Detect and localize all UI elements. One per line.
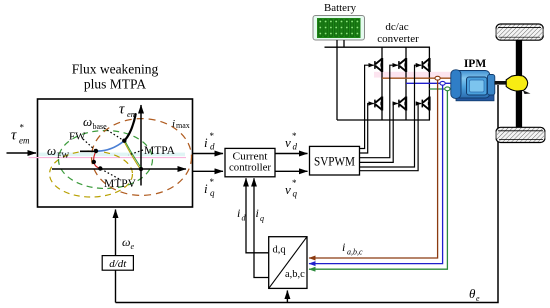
MTPA lower curve (olive-green, dot2 to origin)	[124, 141, 140, 169]
svg-text:τ: τ	[11, 128, 17, 144]
voltage ellipse (green, base speed)	[59, 131, 153, 189]
wire: v*_d to SVPWM	[275, 153, 308, 155]
cyan constant-torque band	[39, 153, 185, 157]
transistor Q5 (top leg 3)	[422, 58, 430, 72]
theta_e position feedback wire	[116, 85, 499, 303]
magenta constant-torque line	[29, 157, 187, 159]
svg-text:FW: FW	[69, 131, 86, 143]
phase line a (brown)	[382, 77, 452, 79]
svg-text:a,b,c: a,b,c	[347, 248, 363, 257]
svg-text:i: i	[172, 118, 175, 130]
axle (vertical drive shaft)	[516, 39, 522, 129]
flux-weakening block U1	[38, 99, 193, 207]
svg-text:converter: converter	[377, 33, 419, 45]
transistor Q6 (bottom leg 3)	[422, 97, 430, 111]
svg-text:i: i	[256, 206, 259, 220]
wire: gate drive to bottom IGBT leg 1	[360, 104, 374, 154]
node: axis point dot4	[98, 166, 102, 170]
svg-text:v: v	[285, 182, 291, 197]
svg-text:*: *	[210, 177, 215, 187]
node: origin dot	[139, 167, 143, 171]
wire: i_q feedback to controller	[254, 178, 269, 277]
wire: gate drive to bottom IGBT leg 2	[360, 104, 398, 163]
svg-text:d/dt: d/dt	[109, 258, 127, 270]
dq to abc transform block	[269, 237, 307, 289]
shaft from motor to differential	[495, 81, 508, 85]
svg-text:ω: ω	[122, 235, 130, 249]
voltage ellipse (olive, low speed)	[50, 151, 133, 197]
svg-text:d: d	[210, 142, 215, 152]
wire: phase c measurement drop	[309, 91, 447, 270]
svg-text:*: *	[292, 178, 297, 188]
FW entry segment (black)	[80, 150, 97, 152]
svg-text:q: q	[260, 214, 264, 223]
MTPV trajectory (red)	[94, 151, 101, 169]
transistor Q1 (top leg 1)	[375, 58, 383, 72]
svg-text:v: v	[285, 135, 291, 150]
phase line b (blue)	[406, 82, 452, 84]
svg-text:max: max	[176, 121, 190, 130]
svg-text:base: base	[93, 122, 108, 131]
svg-text:Flux weakening: Flux weakening	[72, 62, 159, 77]
svg-text:e: e	[131, 242, 135, 251]
transistor Q3 (top leg 2)	[399, 58, 407, 72]
svg-text:θ: θ	[469, 286, 476, 301]
transistor Q4 (bottom leg 2)	[399, 97, 407, 111]
phase line c (green)	[429, 88, 452, 90]
current sensor c	[445, 87, 450, 91]
wire: battery positive to top dc bus	[343, 40, 345, 47]
plot horizontal axis	[52, 168, 186, 170]
current controller block	[225, 148, 275, 176]
wire: top dc bus	[325, 46, 431, 48]
wheel (bottom)	[495, 127, 545, 142]
current limit ellipse i_max (brown)	[92, 119, 192, 196]
wire: i*_d reference to current controller	[193, 153, 224, 155]
svg-text:*: *	[20, 123, 25, 133]
wire: torque reference input arrow	[7, 152, 37, 154]
svg-text:controller: controller	[229, 162, 271, 174]
dotted pointer MTPV	[101, 169, 121, 180]
wire: i*_q reference to current controller	[193, 170, 224, 172]
node: MTPV point dot3	[92, 160, 96, 164]
dotted pointer MTPA	[129, 150, 144, 155]
wire: phase a measurement drop	[309, 80, 438, 258]
svg-text:q: q	[210, 188, 215, 198]
battery pack	[313, 16, 365, 41]
wire: gate drive to bottom IGBT leg 3	[360, 104, 422, 171]
svg-text:MTPA: MTPA	[144, 145, 176, 157]
svg-text:e: e	[476, 294, 480, 303]
d/dt block	[102, 256, 133, 271]
svg-text:plus MTPA: plus MTPA	[84, 77, 146, 92]
svg-text:dc/ac: dc/ac	[385, 21, 408, 33]
wire: phase b measurement drop	[309, 85, 443, 263]
svg-text:i: i	[237, 206, 240, 220]
wire: theta to d/dt	[115, 270, 117, 302]
wire: omega_e to flux block	[115, 210, 117, 256]
wheel (top)	[495, 24, 543, 40]
wire: battery negative to bottom dc bus	[336, 40, 338, 120]
dotted pointer omega_base	[104, 128, 122, 140]
wire: i_d feedback to controller	[246, 178, 269, 253]
node: MTPA point dot2	[122, 139, 126, 143]
node: FW point dot1	[94, 149, 98, 153]
svg-text:FW: FW	[57, 151, 69, 160]
svg-text:*: *	[292, 131, 297, 141]
svg-text:i: i	[204, 135, 208, 150]
wire: v*_q to SVPWM	[275, 170, 308, 172]
motor IPM M1	[451, 70, 495, 101]
differential gear (yellow)	[506, 75, 528, 91]
svg-text:ω: ω	[83, 114, 92, 129]
svg-text:em: em	[19, 136, 30, 146]
svg-text:i: i	[342, 240, 345, 254]
svg-text:SVPWM: SVPWM	[314, 155, 355, 169]
svg-text:MTPV: MTPV	[104, 178, 137, 190]
constant torque curve (thick black)	[124, 114, 136, 141]
svg-text:*: *	[210, 131, 215, 141]
svg-text:ω: ω	[47, 143, 56, 158]
SVPWM block	[310, 146, 360, 175]
pink halo band above phase lines	[374, 72, 452, 78]
svg-text:i: i	[204, 181, 208, 196]
current sensor a	[435, 76, 440, 80]
wire: gate drive to top IGBT leg 1	[360, 65, 374, 148]
wire: gate drive to top IGBT leg 2	[360, 65, 398, 158]
wire: bottom dc bus	[337, 119, 430, 121]
svg-text:d: d	[293, 142, 298, 152]
svg-text:Battery: Battery	[324, 3, 357, 14]
current sensor b	[440, 81, 445, 85]
wire: converter leg 1	[381, 47, 383, 120]
svg-text:τ: τ	[119, 102, 125, 118]
svg-text:d,q: d,q	[273, 245, 287, 256]
dotted pointer FW	[83, 139, 95, 150]
transistor Q2 (bottom leg 1)	[375, 97, 383, 111]
svg-text:a,b,c: a,b,c	[285, 269, 305, 280]
FW trajectory (blue)	[96, 141, 124, 151]
wire: gate drive to top IGBT leg 3	[360, 65, 422, 167]
wire: converter leg 3	[428, 47, 430, 120]
wire: converter leg 2	[405, 47, 407, 120]
differential housing tail	[523, 90, 531, 94]
svg-text:IPM: IPM	[464, 58, 487, 70]
wire: theta to abc block (up arrow)	[286, 291, 288, 303]
plot vertical axis	[140, 105, 142, 186]
svg-text:q: q	[293, 189, 298, 199]
